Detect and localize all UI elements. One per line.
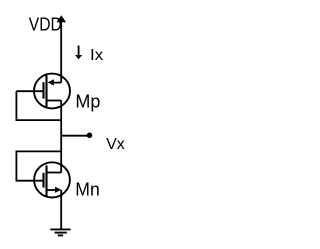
svg-text:Mn: Mn xyxy=(75,179,100,199)
Mp gate lead xyxy=(16,90,43,92)
VDD supply up-arrow xyxy=(57,15,67,82)
transistor Mp (diode-connected PMOS) xyxy=(16,74,70,109)
wire Vx stub xyxy=(61,135,87,137)
Mp drain horizontal xyxy=(47,100,62,102)
ground symbol xyxy=(50,229,70,235)
Mn source horizontal with arrow out xyxy=(47,189,56,191)
Mp channel bar xyxy=(45,75,47,106)
svg-text:Mp: Mp xyxy=(75,91,100,111)
node Vx terminal dot xyxy=(87,133,93,139)
current arrow Ix xyxy=(75,46,82,60)
wire Mn gate-to-drain feedback loop xyxy=(16,151,61,180)
Mn channel bar xyxy=(45,165,47,196)
Mn gate bar xyxy=(42,173,44,188)
Mp gate bar xyxy=(42,82,44,98)
svg-text:Ix: Ix xyxy=(90,47,103,64)
Mn drain horizontal xyxy=(47,172,62,174)
wire Mn source to ground xyxy=(60,190,62,229)
wire rail Mp drain to Mn drain xyxy=(60,101,62,173)
svg-text:Vx: Vx xyxy=(106,136,125,153)
transistor Mn (diode-connected NMOS) xyxy=(34,162,70,197)
Mp source horizontal with arrow into channel xyxy=(54,82,62,84)
wire Mp gate-to-drain feedback loop xyxy=(16,91,61,120)
svg-text:VDD: VDD xyxy=(29,15,62,35)
